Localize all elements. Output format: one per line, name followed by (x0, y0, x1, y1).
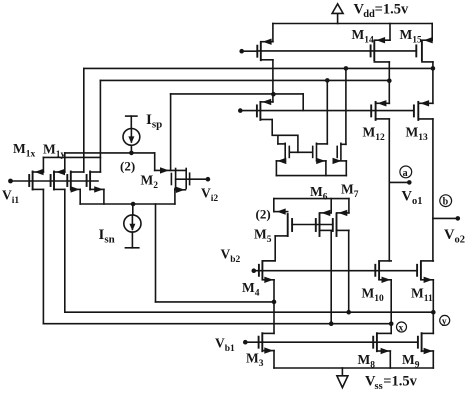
svg-text:(2): (2) (120, 159, 135, 174)
label Isn (99, 227, 115, 246)
label Vb2 (221, 246, 241, 265)
transistor M2 right device (155, 167, 190, 204)
node M14 drain net2 junction (387, 78, 392, 83)
label M6 (310, 184, 328, 203)
label Vss=1.5v (365, 374, 418, 393)
transistor M2 pair left device (67, 172, 84, 193)
node Vi2 input terminal (190, 177, 211, 182)
label M9 (402, 352, 420, 371)
label Vdd=1.5v (354, 1, 409, 20)
node Vb1 bias terminal (243, 340, 418, 345)
node M4 source junction (272, 300, 277, 305)
node Vo1 output tap (389, 180, 411, 185)
node net3 junction (271, 92, 276, 97)
label Vb1 (215, 335, 235, 354)
label M3 (246, 351, 264, 370)
node Isp junction (129, 151, 134, 156)
wire node y bus (65, 189, 434, 312)
svg-text:b: b (443, 197, 449, 208)
label M5 (254, 227, 272, 246)
wire M4 source to M3 drain (273, 302, 275, 334)
transistor M11 (417, 261, 433, 283)
node x circled (397, 322, 407, 333)
transistor M7 (333, 199, 349, 236)
wire common gate line P1 M14 M15 (242, 50, 417, 52)
wire feedback column to M2 left drain (83, 68, 85, 172)
wire M1y drain column (99, 80, 101, 172)
node b circled (440, 195, 452, 208)
transistor cross pair left (276, 135, 289, 175)
power symbol Vss triangle (337, 368, 348, 388)
label Vo1 (402, 188, 423, 207)
node net1 junction T5 drain (344, 66, 349, 71)
svg-text:x: x (399, 323, 404, 333)
node Vo2 output tap (433, 216, 460, 221)
power rail Vdd (273, 23, 432, 25)
node P1 gate terminal (239, 49, 244, 54)
transistor M10 (375, 261, 391, 283)
wire cross pair common gate (289, 151, 312, 153)
label M15 (400, 27, 423, 46)
node y circled (440, 315, 450, 327)
wire M2 right drain corner from Isp rail (154, 153, 156, 171)
label M1y (43, 142, 66, 161)
power rail Vss (274, 367, 433, 369)
label M11 (411, 286, 433, 305)
svg-text:y: y (442, 317, 447, 327)
wire M5 source to M4 drain (263, 236, 276, 261)
node a circled (400, 166, 412, 179)
label (2) multiplier M5 (256, 207, 271, 222)
wire M7 source column to node y bus (348, 230, 350, 312)
transistor M1x (29, 157, 43, 189)
node x junction M10 M8 (389, 321, 394, 326)
node x junction M6 (329, 321, 334, 326)
svg-text:=1.5v: =1.5v (375, 1, 409, 17)
label (2) multiplier left (120, 159, 135, 174)
transistor M15 (416, 24, 433, 69)
transistor M3 (259, 333, 274, 368)
label M12 (363, 125, 386, 144)
label M1x (13, 141, 36, 160)
transistor cross pair right (313, 143, 328, 175)
svg-text:(2): (2) (256, 207, 271, 222)
wire cross pair right drain column (326, 80, 328, 143)
transistor M8 (373, 333, 391, 368)
transistor P1 top left PMOS (257, 24, 273, 61)
transistor M13 (414, 68, 433, 120)
transistor M4 (259, 261, 275, 302)
power symbol Vdd triangle (332, 4, 343, 24)
wire feedback net 2 (100, 79, 389, 81)
wire tail to bus A column (155, 204, 157, 302)
wire M13 drain column to M11 (432, 119, 434, 261)
transistor M1y (51, 153, 65, 190)
node net2 junction right drain (325, 78, 330, 83)
wire net 3 cascode (171, 94, 304, 111)
wire T5 drain column (345, 68, 347, 144)
label M8 (358, 352, 376, 371)
wire M5 M6 M7 gate line (292, 224, 333, 226)
label Vi2 (201, 186, 218, 205)
wire M5 M6 M7 drain rail (274, 198, 349, 200)
wire M12 drain column to M10 (388, 119, 390, 261)
wire gate bias rail with terminal (238, 108, 414, 113)
label M13 (406, 125, 429, 144)
current source Isp (123, 116, 140, 153)
transistor P2 lower left PMOS (257, 94, 273, 120)
svg-text:ss: ss (375, 381, 383, 392)
transistor M2 pair second left device (87, 172, 104, 193)
label Isp (146, 112, 162, 131)
label M2 (141, 173, 159, 192)
wire M10 source column to node x (390, 280, 392, 334)
label M10 (362, 286, 385, 305)
wire P1 source column (272, 60, 274, 94)
wire M6 source column to node x bus (330, 230, 332, 323)
svg-text:=1.5v: =1.5v (383, 374, 417, 390)
wire Isp node rail (65, 152, 155, 154)
wire feedback net 1 top (84, 67, 433, 69)
transistor M6 (316, 199, 331, 236)
node Vb2 bias terminal (252, 268, 417, 273)
wire pair source rail (276, 175, 346, 177)
transistor M12 (371, 81, 389, 120)
node y junction M11 M9 (431, 310, 436, 315)
transistor M14 (371, 24, 390, 82)
transistor T5 right of pair (333, 143, 347, 175)
label M14 (352, 27, 375, 46)
transistor M9 (418, 333, 433, 368)
wire bus A tail to M4 drain (156, 301, 275, 303)
wire feedback column to M2 right drain (170, 94, 172, 170)
node Vi1 input terminal (8, 179, 98, 184)
wire M11 source column to node y (432, 280, 434, 334)
node M15 drain net1 junction (431, 66, 436, 71)
label Vi1 (2, 188, 19, 207)
label M7 (341, 182, 359, 201)
wire M1 drain rail (43, 156, 100, 158)
label Vo2 (444, 227, 465, 246)
wire P2 source staircase to cross pair gates (272, 120, 298, 153)
svg-text:a: a (403, 168, 408, 179)
wire node x bus (43, 189, 391, 323)
svg-text:dd: dd (363, 9, 375, 20)
current source Isn (124, 204, 141, 248)
transistor M5 (274, 199, 292, 236)
wire M2 tail rail (80, 189, 175, 204)
label M4 (242, 280, 260, 299)
node tail junction (131, 202, 136, 207)
node y junction M7 (346, 310, 351, 315)
